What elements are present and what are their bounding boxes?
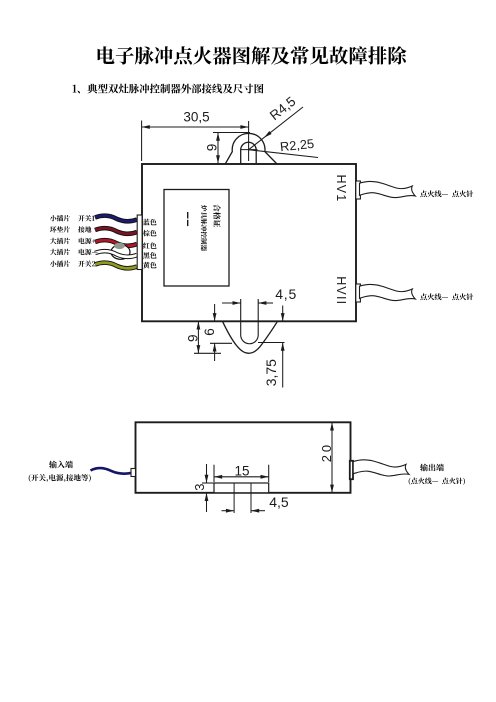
svg-text:15: 15	[234, 463, 249, 478]
svg-text:30,5: 30,5	[183, 109, 209, 124]
svg-text:6: 6	[202, 328, 217, 336]
svg-text:3,75: 3,75	[263, 359, 279, 386]
svg-text:HV1: HV1	[334, 175, 348, 203]
svg-text:3: 3	[192, 484, 207, 491]
svg-text:9: 9	[204, 144, 219, 152]
svg-text:HVII: HVII	[334, 276, 348, 305]
svg-text:9: 9	[186, 334, 201, 342]
svg-text:4,5: 4,5	[275, 286, 297, 302]
svg-text:20: 20	[319, 442, 334, 462]
svg-text:4,5: 4,5	[269, 494, 289, 510]
